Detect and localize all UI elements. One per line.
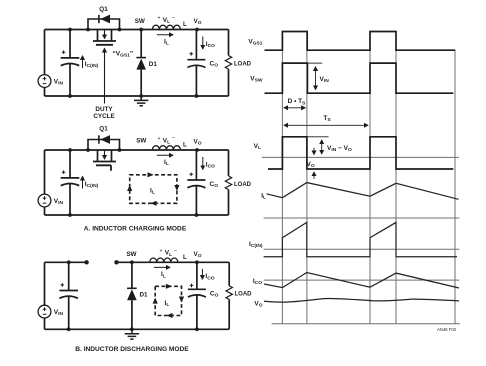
- svg-text:L: L: [183, 254, 187, 261]
- svg-text:+: +: [160, 248, 163, 254]
- svg-text:VL: VL: [163, 17, 170, 25]
- svg-text:D1: D1: [140, 292, 149, 299]
- svg-text:VO: VO: [193, 139, 201, 147]
- svg-text:IC(IN): IC(IN): [249, 241, 263, 249]
- svg-text:VIN: VIN: [54, 309, 64, 317]
- svg-text:CO: CO: [210, 61, 219, 69]
- svg-text:D • TS: D • TS: [288, 98, 307, 106]
- svg-text:LOAD: LOAD: [235, 292, 253, 298]
- svg-text:“VGS1”: “VGS1”: [113, 51, 134, 59]
- svg-text:A. INDUCTOR CHARGING MODE: A. INDUCTOR CHARGING MODE: [84, 226, 187, 233]
- svg-text:VGS1: VGS1: [248, 39, 262, 47]
- svg-text:VIN: VIN: [54, 198, 64, 206]
- svg-text:ICO: ICO: [205, 273, 214, 281]
- svg-text:SW: SW: [136, 138, 146, 145]
- svg-text:IC(IN): IC(IN): [85, 181, 99, 189]
- svg-text:VO: VO: [307, 161, 315, 169]
- svg-text:D1: D1: [149, 61, 158, 68]
- svg-text:Q1: Q1: [99, 6, 108, 13]
- svg-text:+: +: [158, 136, 161, 142]
- svg-text:IL: IL: [261, 193, 266, 201]
- svg-text:VL: VL: [165, 250, 172, 258]
- svg-text:IL: IL: [150, 188, 155, 196]
- svg-text:B. INDUCTOR DISCHARGING MODE: B. INDUCTOR DISCHARGING MODE: [75, 346, 189, 353]
- svg-text:IC(IN): IC(IN): [85, 61, 99, 69]
- svg-text:IL: IL: [164, 39, 169, 47]
- svg-text:L: L: [183, 21, 187, 28]
- svg-text:−: −: [172, 15, 175, 21]
- svg-text:VL: VL: [163, 137, 170, 145]
- svg-text:VO: VO: [193, 18, 201, 26]
- svg-text:ICO: ICO: [253, 278, 262, 286]
- svg-text:LOAD: LOAD: [234, 62, 252, 68]
- svg-text:ICO: ICO: [206, 162, 215, 170]
- svg-text:CO: CO: [210, 290, 219, 298]
- svg-text:L: L: [183, 142, 187, 149]
- svg-text:VO: VO: [254, 301, 262, 309]
- svg-text:CYCLE: CYCLE: [93, 113, 114, 120]
- svg-text:TS: TS: [323, 115, 331, 123]
- svg-text:VIN − VO: VIN − VO: [327, 145, 352, 153]
- svg-text:+: +: [158, 16, 161, 22]
- svg-text:IL: IL: [165, 300, 170, 308]
- svg-text:CO: CO: [210, 181, 219, 189]
- svg-text:VIN: VIN: [320, 76, 330, 84]
- svg-text:DUTY: DUTY: [95, 106, 113, 113]
- svg-text:−: −: [172, 136, 175, 142]
- svg-text:ICO: ICO: [206, 41, 215, 49]
- svg-text:LOAD: LOAD: [234, 182, 252, 188]
- svg-text:SW: SW: [135, 18, 145, 25]
- svg-text:VIN: VIN: [54, 78, 64, 86]
- svg-text:−: −: [174, 248, 177, 254]
- svg-text:VL: VL: [254, 143, 261, 151]
- svg-text:IL: IL: [161, 271, 166, 279]
- svg-text:Q1: Q1: [99, 125, 108, 132]
- svg-text:VSW: VSW: [250, 75, 263, 83]
- svg-text:SW: SW: [126, 251, 136, 258]
- svg-text:VO: VO: [193, 251, 201, 259]
- svg-text:AN46 F03: AN46 F03: [437, 327, 457, 332]
- svg-text:IL: IL: [164, 159, 169, 167]
